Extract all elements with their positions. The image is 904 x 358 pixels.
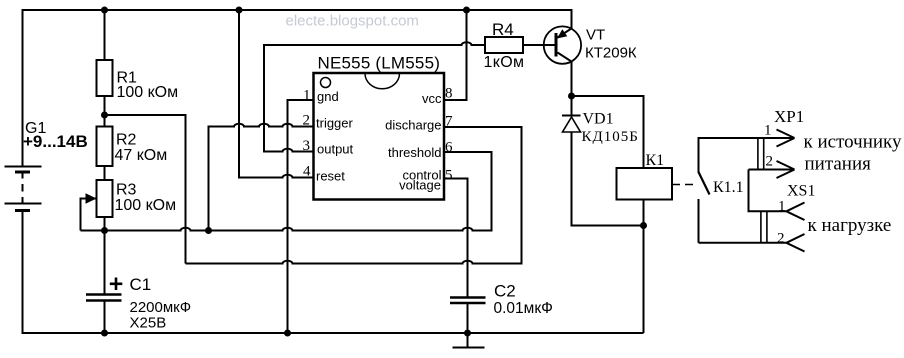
svg-text:1: 1: [303, 88, 311, 104]
svg-text:100 кОм: 100 кОм: [115, 197, 177, 214]
svg-text:threshold: threshold: [388, 145, 441, 160]
svg-text:7: 7: [445, 114, 453, 130]
wire relay to bottom rail: [643, 200, 645, 334]
svg-text:NE555 (LM555): NE555 (LM555): [318, 54, 441, 73]
wire R4 to base: [523, 44, 556, 46]
svg-text:питания: питания: [805, 154, 872, 175]
node R1 R2 junction: [101, 112, 108, 119]
wire VD1 bottom: [572, 133, 644, 226]
svg-text:R2: R2: [116, 132, 137, 149]
node R3 C1 junction: [101, 227, 108, 234]
wire R1 to R2: [104, 96, 106, 127]
svg-text:trigger: trigger: [316, 116, 354, 131]
connector XS1 pin2 arrow: [786, 234, 804, 252]
resistor R4: [485, 37, 523, 53]
svg-text:к нагрузке: к нагрузке: [808, 215, 892, 236]
node VD1 relay junction: [640, 222, 647, 229]
node top rail reset: [236, 7, 243, 14]
svg-text:C1: C1: [130, 275, 152, 294]
svg-text:к источнику: к источнику: [804, 132, 902, 153]
wire top rail: [22, 9, 572, 11]
svg-text:0.01мкФ: 0.01мкФ: [494, 300, 553, 317]
resistor R3 potentiometer: [97, 180, 113, 217]
node top rail vcc: [463, 7, 470, 14]
potentiometer R3 arrow: [86, 193, 97, 204]
wire bottom rail: [22, 332, 644, 334]
IC pin1 mark circle: [321, 78, 331, 88]
op-amp U1 IC NE555 body: [314, 73, 445, 200]
wire C2 to bottom rail: [467, 304, 469, 333]
wire collector to VD1: [571, 96, 573, 115]
svg-text:3: 3: [303, 138, 311, 154]
svg-text:100 кОм: 100 кОм: [117, 84, 179, 101]
svg-text:КТ209К: КТ209К: [585, 45, 637, 62]
wire R3 bottom to C1: [104, 217, 106, 294]
svg-text:vcc: vcc: [422, 91, 442, 106]
transistor emitter arrow: [557, 29, 567, 38]
svg-text:2200мкФ: 2200мкФ: [130, 299, 192, 316]
svg-text:X25В: X25В: [130, 315, 167, 332]
connector XP1 body bars: [758, 138, 764, 170]
wire reset pin 4 to top rail: [239, 10, 314, 178]
wire XP1 pin2 to XS1 pin1: [749, 170, 787, 212]
svg-text:C2: C2: [494, 282, 516, 301]
svg-text:reset: reset: [316, 169, 345, 184]
node gnd bottom rail: [284, 330, 291, 337]
svg-text:gnd: gnd: [317, 89, 339, 104]
resistor R2: [97, 127, 113, 167]
wire discharge bus pin 7: [186, 127, 522, 264]
wire R1R2 junction to discharge bus: [105, 115, 186, 264]
node C2 bottom rail: [464, 330, 471, 337]
connector XP1 pin2 arrow: [777, 161, 795, 178]
wire collector to relay: [572, 96, 644, 168]
C1 plus sign: [110, 278, 123, 291]
wire R3 wiper: [81, 199, 96, 231]
svg-text:1: 1: [764, 123, 772, 139]
connector XS1 body bars: [761, 211, 767, 243]
contact K1.1 switch: [699, 138, 710, 243]
wire trigger threshold bus pin 6: [81, 152, 492, 231]
connector XS1 pin1 arrow: [786, 203, 804, 221]
battery G1: [5, 167, 42, 211]
svg-text:2: 2: [777, 231, 785, 247]
svg-text:47 кОм: 47 кОм: [115, 147, 168, 164]
diode VD1: [562, 116, 581, 133]
svg-text:6: 6: [445, 140, 453, 156]
svg-text:5: 5: [445, 168, 453, 184]
svg-text:R4: R4: [492, 20, 514, 39]
node trigger bus junction: [205, 227, 212, 234]
svg-text:1кОм: 1кОм: [484, 54, 525, 71]
node top rail R1: [101, 7, 108, 14]
svg-text:XP1: XP1: [774, 107, 804, 126]
svg-text:discharge: discharge: [385, 118, 441, 133]
svg-text:1: 1: [778, 199, 786, 215]
wire output pin 3 to R4: [264, 42, 485, 151]
svg-text:electe.blogspot.com: electe.blogspot.com: [286, 13, 419, 30]
connector XP1 pin1 arrow: [777, 130, 795, 147]
capacitor C2: [450, 298, 486, 304]
wire trigger pin 2: [209, 124, 314, 231]
svg-text:VT: VT: [586, 27, 605, 44]
svg-text:К1: К1: [646, 152, 665, 169]
wire XP1 pin1: [698, 137, 795, 139]
svg-text:К1.1: К1.1: [713, 179, 744, 196]
IC notch: [365, 74, 400, 89]
resistor R1: [97, 60, 113, 96]
svg-text:R3: R3: [116, 182, 137, 199]
svg-text:+9...14В: +9...14В: [23, 132, 88, 151]
node collector: [568, 93, 575, 100]
wire vcc pin 8 to top rail: [444, 9, 467, 100]
wire C1 to bottom rail: [104, 302, 106, 334]
relay K1 coil: [617, 168, 673, 200]
svg-text:VD1: VD1: [583, 111, 614, 128]
svg-text:КД105Б: КД105Б: [582, 129, 639, 145]
capacitor C1: [86, 295, 122, 301]
wire control pin 5 to C2: [444, 179, 468, 297]
ground symbol: [453, 333, 485, 348]
wire battery to bottom rail: [22, 212, 24, 334]
wire R2 to R3: [104, 166, 106, 180]
wire gnd pin 1 to bottom rail: [288, 100, 314, 333]
dashed link K1.1: [672, 184, 696, 186]
wire XS1 pin2: [699, 242, 787, 244]
svg-text:8: 8: [445, 86, 453, 102]
svg-text:4: 4: [303, 164, 311, 180]
svg-text:2: 2: [303, 113, 311, 129]
svg-text:output: output: [317, 142, 354, 157]
transistor Q1 VT KT209K: [544, 9, 581, 96]
svg-text:XS1: XS1: [787, 183, 815, 200]
wire left rail: [22, 9, 24, 166]
wire XP1 pin2: [749, 169, 795, 171]
svg-text:2: 2: [766, 154, 774, 170]
wire R1 top: [104, 9, 106, 60]
svg-text:voltage: voltage: [399, 178, 441, 193]
node C1 bottom rail: [101, 330, 108, 337]
